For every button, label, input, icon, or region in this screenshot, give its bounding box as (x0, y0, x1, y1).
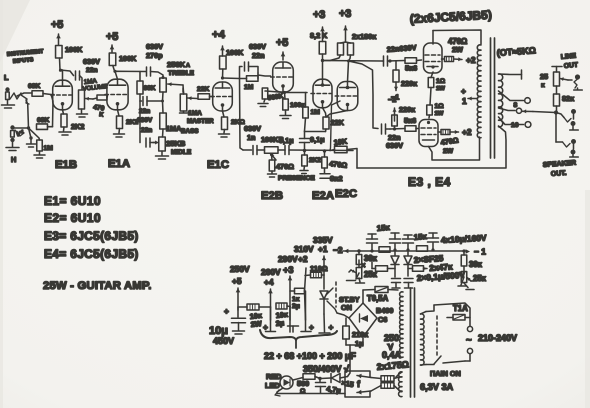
label E3 E4 (408, 175, 451, 189)
ground (jack L) (2, 105, 15, 108)
label V1 (16, 129, 24, 138)
wire OT tap 8 (499, 102, 522, 113)
svg-text:1M: 1M (44, 145, 54, 152)
svg-text:1M: 1M (244, 84, 254, 91)
jack SP1 (570, 109, 579, 130)
svg-text:2W: 2W (452, 45, 463, 54)
label R13 1M (244, 84, 254, 91)
node treble top (162, 76, 165, 79)
wire +3 to R36 (290, 290, 295, 292)
svg-text:16: 16 (511, 122, 519, 129)
label R4 100K (65, 45, 83, 54)
resistor R23 180K a (338, 42, 346, 55)
svg-text:82κ: 82κ (562, 94, 575, 103)
wire R19 to feedback (347, 149, 357, 169)
resistor R14 560K (262, 88, 268, 102)
wire C2 to treble (151, 72, 164, 79)
svg-text:250: 250 (384, 333, 399, 343)
svg-text:310V: 310V (294, 244, 314, 254)
ground (P9) (458, 277, 474, 290)
svg-text:22K: 22K (331, 118, 345, 127)
svg-text:+5: +5 (232, 276, 242, 286)
svg-text:+: + (224, 306, 229, 316)
svg-text:5κ6: 5κ6 (404, 116, 416, 125)
svg-text:1Ω: 1Ω (436, 78, 446, 85)
label 470R 2W E3 (448, 37, 467, 54)
label C8 0,1u (310, 135, 325, 144)
wire R5 to E1A grid (106, 96, 109, 98)
label R20 1M (311, 109, 321, 116)
svg-text:κ: κ (541, 82, 545, 89)
label R15 100K (290, 102, 305, 109)
capacitor C19 10u/160V b (390, 233, 401, 250)
wire -2 arrow (344, 249, 348, 254)
capacitor C22 0,1u a (392, 279, 401, 289)
svg-text:220κ: 220κ (401, 79, 418, 88)
ground (P3) (180, 111, 189, 113)
resistor R11 100K (220, 56, 227, 69)
transformer TR heater winding (399, 372, 402, 397)
label R7 100K (119, 54, 137, 63)
svg-text:68K: 68K (28, 83, 40, 90)
label H (11, 155, 16, 164)
diode D2 (321, 345, 350, 383)
label P1 1MA VOLUME (83, 78, 108, 93)
svg-text:1n: 1n (247, 133, 256, 142)
ground (R14) (258, 104, 268, 107)
pot P6 100KB (257, 147, 278, 160)
wire E2C plate to C11 (349, 61, 379, 129)
supply rail +3 label (278, 254, 298, 275)
svg-text:+2: +2 (466, 55, 476, 65)
label E2B (261, 190, 283, 202)
wire R4 to plate (60, 58, 63, 70)
label -1 (bias) (391, 93, 399, 102)
svg-text:22n: 22n (141, 127, 152, 134)
capacitor C21 10u/160V d (428, 233, 439, 250)
label C2 630V 270p (146, 42, 163, 60)
transformer TR primary HV (400, 292, 403, 357)
label P9 25K (473, 274, 487, 283)
label instrument inputs (7, 49, 45, 65)
svg-text:110Ω: 110Ω (310, 264, 328, 273)
label C7 0,1u (279, 136, 294, 145)
label R17 2K2 (309, 157, 321, 164)
node bias a (357, 249, 360, 252)
svg-text:+4: +4 (264, 277, 274, 287)
label R12 2K&#937; (231, 119, 246, 126)
wire E3 plate top (432, 31, 434, 45)
label R16 470&#937; (276, 162, 294, 171)
label R11 100K (226, 48, 244, 57)
resistor R7 100K (109, 53, 116, 66)
wire 47Ka left (372, 262, 376, 269)
wire node A up (26, 100, 29, 128)
label C1 630V 22n (83, 57, 100, 74)
svg-text:T0,5A: T0,5A (367, 294, 389, 303)
wire E2C grid (330, 101, 340, 151)
label R35 10K 2W (275, 310, 289, 328)
svg-text:+5: +5 (276, 37, 288, 49)
label E1C (207, 159, 229, 171)
resistor R40 210K 1W (343, 318, 350, 345)
capacitor C8 0,1u (vert) (300, 131, 310, 150)
supply rail +4 label (261, 267, 281, 287)
resistor R6 2K2 (E1B cathode) (61, 110, 67, 127)
capacitor C12 10u 450V (224, 306, 246, 330)
svg-text:25KB: 25KB (166, 139, 186, 148)
pot P5 25KB middle (153, 137, 165, 151)
label x15 (341, 378, 355, 389)
label R3 68K (37, 117, 49, 124)
svg-text:260V: 260V (261, 267, 281, 277)
wire wiper to R5 (93, 98, 97, 99)
resistor R29 screen E3 (442, 57, 454, 62)
label ~210-240V (466, 333, 517, 346)
resistor R13 1M (240, 73, 259, 81)
resistor R33 82K (554, 86, 560, 113)
diode D3 SF25 a (391, 250, 399, 277)
node plate E1A (113, 70, 116, 73)
svg-text:T1A: T1A (453, 304, 468, 313)
resistor R34 10K 2W (238, 304, 271, 310)
svg-text:− 1: − 1 (474, 247, 486, 257)
supply +3 (E2C) (339, 8, 351, 42)
svg-text:E1C: E1C (207, 159, 229, 171)
label E4=6JC5 (44, 247, 139, 261)
svg-text:E3 , E4: E3 , E4 (408, 175, 451, 189)
svg-text:2W: 2W (443, 148, 454, 155)
resistor R19 10K (330, 146, 347, 153)
label 6,3V 3A (420, 382, 454, 392)
svg-text:6,3V 3A: 6,3V 3A (420, 382, 454, 392)
svg-text:220κ: 220κ (399, 105, 416, 114)
svg-text:E2B: E2B (261, 190, 283, 202)
svg-text:+3: +3 (283, 265, 293, 275)
svg-text:2W: 2W (250, 319, 262, 329)
label MAIN ON (430, 369, 461, 378)
wire R36 to rail2 (304, 290, 306, 292)
label R18 470&#937; (329, 159, 348, 170)
resistor R5 470K (97, 95, 107, 100)
label R31 1R 1W (435, 103, 445, 117)
svg-text:1μ: 1μ (355, 339, 364, 348)
ground (R12) (219, 130, 230, 138)
node bias e (431, 248, 434, 251)
wire C1 to volume (80, 76, 83, 90)
svg-text:25: 25 (540, 72, 548, 81)
wire R26 to E3 grid (417, 59, 422, 62)
resistor R1 68K (32, 91, 43, 97)
label R36 1K 2W (292, 296, 300, 310)
svg-text:ΠAIN ON: ΠAIN ON (430, 369, 461, 378)
label R22 8.2K (310, 31, 328, 40)
svg-text:E3= 6JC5(6JB5): E3= 6JC5(6JB5) (44, 229, 139, 243)
ground (P8) (347, 273, 365, 283)
wire mains to terminals (434, 303, 470, 326)
fuse F1 T0.5A (363, 287, 398, 304)
label 2x47K (429, 261, 453, 273)
bracket filter caps (260, 330, 337, 348)
svg-text:+5: +5 (51, 19, 63, 31)
pot P7 25K (line out) (554, 72, 569, 86)
jack J1 (L input) (5, 87, 9, 104)
node speaker (554, 110, 558, 114)
label OT=5K (496, 45, 536, 58)
svg-text:22K: 22K (197, 86, 209, 93)
svg-text:TREBLE: TREBLE (168, 70, 195, 77)
wire OT top (433, 30, 481, 44)
svg-text:E1= 6U10: E1= 6U10 (44, 194, 101, 208)
label +1 (OT center tap) (461, 86, 478, 106)
resistor R2 1M (29, 128, 43, 151)
resistor R28 5K6 (lower) (405, 126, 416, 132)
wire +1 rail down (323, 275, 325, 289)
ground (jack H) (6, 148, 19, 151)
resistor R10 22K (198, 94, 210, 100)
label C10 22n630V (387, 43, 417, 54)
wire E1C plate out (223, 77, 240, 80)
ground (node A) (27, 144, 36, 147)
node bias d (406, 248, 409, 251)
label C12 10u 450V (209, 325, 234, 346)
wire +2 E4 (450, 127, 472, 137)
label f (heater) (357, 379, 361, 389)
wire +3 rail (288, 276, 293, 320)
svg-text:~: ~ (466, 335, 472, 346)
label P8 25K (364, 270, 378, 279)
label C3 22n 630V (137, 108, 153, 124)
tube E3 (power) (424, 43, 443, 73)
svg-text:560: 560 (297, 379, 309, 388)
svg-text:+: + (329, 322, 334, 332)
resistor R46 47K b (408, 266, 427, 272)
resistor R26 5K6 (upper) (405, 58, 417, 64)
svg-text:8: 8 (514, 102, 518, 109)
wire R27 to C11 node (390, 126, 405, 131)
svg-text:470Ω: 470Ω (329, 159, 348, 170)
label 250V 0.4A (382, 333, 402, 360)
svg-text:210κ: 210κ (352, 330, 369, 339)
label R9 68K (144, 85, 156, 92)
svg-text:270p: 270p (146, 51, 163, 60)
svg-text:100K: 100K (226, 48, 244, 57)
wire to E2B grid (258, 75, 271, 76)
label R8 2K2 (126, 119, 139, 126)
svg-text:+: + (461, 86, 466, 96)
svg-text:MASTER: MASTER (187, 118, 214, 125)
wire plate to C1 (61, 70, 74, 76)
svg-text:LED: LED (265, 381, 280, 390)
wire +2 rail (305, 268, 307, 320)
wire to jack 2 (556, 115, 570, 148)
supply +5 (E2B) (276, 37, 288, 60)
label R26 5K6 (405, 64, 417, 73)
svg-text:+: + (263, 322, 268, 332)
label B400 C6 (376, 306, 393, 324)
svg-text:630V: 630V (249, 42, 266, 51)
svg-text:15κ: 15κ (413, 232, 427, 242)
resistor R25 220K (upper) (393, 61, 399, 82)
label P4 1MA BASS (166, 124, 199, 135)
ground (R15) (280, 110, 291, 119)
ground (R17) (300, 166, 308, 174)
pot P2 treble (160, 78, 183, 92)
capacitor C16 filter (319, 314, 334, 333)
supply rail +1 label (313, 235, 333, 254)
wire 180Kb to E2C plate (347, 55, 351, 82)
pot P3 1MA master (180, 94, 197, 111)
label E1B (55, 159, 77, 171)
diode D1 (standby) (320, 291, 328, 314)
wire tap8 to speaker (523, 109, 556, 113)
wire bass to middle (162, 129, 165, 137)
resistor R20 1M (303, 93, 309, 132)
capacitor C11 22n 630V (lower) (382, 124, 391, 134)
resistor R27 220K (lower) (392, 115, 398, 126)
supply +4 (E1C) (212, 29, 226, 56)
svg-text:68K: 68K (37, 117, 49, 124)
capacitor C17 4u7 (316, 379, 326, 394)
capacitor C7 0,1u (278, 146, 289, 155)
svg-text:0,1μ: 0,1μ (310, 135, 325, 144)
svg-text:1Ω: 1Ω (435, 103, 445, 110)
label R6 2K2 (71, 122, 84, 131)
svg-text:470Ω: 470Ω (276, 162, 294, 171)
label L (4, 73, 9, 82)
capacitor C4 22n (140, 101, 157, 147)
svg-text:RED: RED (266, 372, 281, 381)
transformer TR core (411, 288, 415, 397)
label R19 10K (333, 137, 348, 147)
resistor R39 175R b (381, 383, 400, 391)
svg-text:2μ: 2μ (275, 318, 284, 328)
svg-text:22n: 22n (252, 51, 265, 60)
resistor R38 175R a (381, 376, 399, 382)
switch S2 ST.BY (326, 282, 337, 313)
node E2B out (283, 91, 286, 94)
resistor R3 68K (37, 124, 48, 130)
pot P8 25K (bias left) (349, 260, 366, 279)
svg-text:+3: +3 (313, 9, 325, 21)
svg-text:+1: +1 (318, 244, 328, 254)
label C11 22n 630V (386, 133, 403, 150)
wire E2B node to E2A grid (285, 92, 308, 94)
svg-text:100K: 100K (119, 54, 137, 63)
capacitor C2 270p (147, 67, 151, 76)
svg-text:1MΛ: 1MΛ (188, 110, 202, 117)
resistor R47 39K (right) (461, 251, 467, 266)
label ST.BY ON (339, 295, 360, 312)
svg-text:0,4A: 0,4A (382, 350, 402, 360)
wire treble bottom to C3 (161, 92, 164, 103)
label R5 470K (93, 104, 105, 119)
label (2x6JC5/6JB5) (409, 8, 492, 26)
wire bus (289, 149, 353, 152)
label SPEAKER OUT (543, 160, 577, 178)
wire to jack 1 (556, 113, 571, 123)
node bias upper (388, 59, 406, 62)
tube E2C (335, 82, 358, 111)
svg-text:PRESENCE: PRESENCE (278, 175, 315, 182)
capacitor C10 22n 630V (upper) (383, 56, 388, 66)
jack J2 (H input) (10, 125, 14, 147)
wire OT sec bottom feedback (357, 126, 506, 168)
label PRESENCE (278, 175, 315, 182)
led LED1 red (275, 376, 303, 396)
wire OT tap 16 (499, 117, 531, 129)
label E2=6U10 (44, 211, 101, 225)
tube E1C (211, 82, 233, 111)
label 2x175R (376, 359, 409, 372)
resistor R8 2K2 (E1A cathode) (117, 110, 123, 129)
svg-text:E2= 6U10: E2= 6U10 (44, 211, 101, 225)
wire OT sec top (499, 70, 522, 79)
svg-text:1W: 1W (436, 86, 445, 92)
resistor R21 22K (323, 117, 329, 129)
label P6 100KB (261, 135, 284, 144)
ground (P1) (77, 109, 88, 117)
label RED LED (265, 372, 281, 390)
svg-text:25κ: 25κ (473, 274, 487, 283)
svg-text:1: 1 (462, 96, 467, 106)
wire plate E1B (62, 70, 64, 80)
svg-text:210-240V: 210-240V (478, 333, 517, 343)
node LED junction (318, 377, 321, 380)
label F1 T0.5A (367, 294, 389, 303)
label P3 1MA MASTER (187, 110, 214, 125)
svg-text:68K: 68K (144, 85, 156, 92)
label 25W GUITAR AMP (43, 280, 152, 292)
svg-text:2K2: 2K2 (309, 157, 321, 164)
svg-text:630V: 630V (83, 57, 100, 66)
capacitor C23 0,1u b (404, 279, 413, 289)
resistor R18 470 (322, 151, 328, 168)
svg-text:100K: 100K (65, 45, 83, 54)
node bus 2 (323, 149, 326, 152)
fuse F2 T1A (447, 304, 470, 320)
svg-text:×: × (361, 261, 366, 270)
ground (R6) (59, 127, 71, 135)
label 22+68+100+200uF (264, 351, 356, 361)
resistor R16 470 (presence) (269, 155, 275, 174)
resistor R22 8K2 (319, 42, 326, 55)
svg-text:25W - GUITAR AMP.: 25W - GUITAR AMP. (43, 280, 152, 292)
resistor R45 47K a (376, 266, 396, 272)
wire fuse (0, 0, 1, 1)
wire heater bottom (400, 390, 402, 392)
label 4x10u/160V (441, 233, 488, 245)
resistor R30 1R (E3 cathode) (428, 72, 434, 88)
label P2 250KA TREBLE (167, 60, 195, 77)
wire R10 to E1C grid (210, 96, 214, 98)
wire E2A plate (322, 61, 324, 80)
label 470R 2W E4 (440, 136, 459, 155)
label R42 39K (364, 254, 378, 263)
wire S2 to bridge (337, 313, 349, 318)
wire line top tick (552, 67, 562, 73)
ground (R2) (34, 151, 45, 158)
wire -1 arrow (394, 82, 398, 91)
switch S1 (input L) (10, 93, 29, 104)
svg-text:+: + (309, 322, 314, 332)
capacitor C5 22n (E1C out) (240, 62, 259, 79)
label E3=6JC5 (44, 229, 139, 243)
wire +5 rail (236, 288, 241, 317)
wire -1 arrow (466, 247, 487, 257)
capacitor C3 22n (140, 94, 163, 106)
resistor R41 560R (303, 374, 320, 380)
